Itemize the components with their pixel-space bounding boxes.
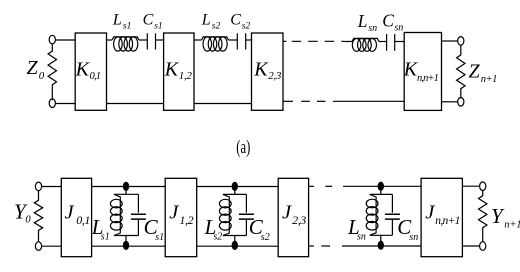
svg-text:Z: Z xyxy=(27,57,39,79)
svg-text:n+1: n+1 xyxy=(504,220,520,231)
svg-text:L: L xyxy=(357,11,368,31)
label Ls2 xyxy=(201,12,221,32)
svg-text:sn: sn xyxy=(357,231,366,242)
port terminal bottom-right (circuit b) xyxy=(480,242,486,251)
svg-text:L: L xyxy=(112,12,122,29)
wire top-left to J0,1 xyxy=(42,186,61,188)
impedance inverter K2,3 xyxy=(252,33,284,110)
node dot bottom (tank 2) xyxy=(232,241,238,250)
wire bottom rail J1,2 to J2,3 xyxy=(197,245,279,247)
wire K0,1 to Ls1 xyxy=(107,39,113,41)
label Ls1 (shunt) xyxy=(91,215,110,243)
svg-text:1,2: 1,2 xyxy=(179,70,193,82)
wire Kn,n+1 to right port top xyxy=(442,40,458,42)
svg-text:Y: Y xyxy=(491,204,505,228)
svg-text:0,1: 0,1 xyxy=(90,71,101,82)
port terminal bottom-right (circuit a) xyxy=(458,98,464,107)
label Cs2 xyxy=(230,11,250,31)
admittance inverter J0,1 xyxy=(61,178,91,256)
impedance inverter K0,1 xyxy=(75,33,107,110)
svg-text:2,3: 2,3 xyxy=(268,70,282,82)
inductor Ls1 xyxy=(112,37,139,51)
wire dashed top (circuit b) xyxy=(309,185,333,187)
wire Jn,n+1 to right port top xyxy=(462,185,479,187)
wire Cs1 to K1,2 xyxy=(156,39,164,41)
label (a) xyxy=(236,138,250,158)
svg-text:s2: s2 xyxy=(242,22,251,32)
port terminal bottom-left (circuit a) xyxy=(49,99,55,108)
label Lsn xyxy=(357,11,377,34)
capacitor Cs2 (shunt) xyxy=(239,194,254,235)
svg-text:L: L xyxy=(201,12,211,29)
svg-text:sn: sn xyxy=(409,232,418,243)
wire top rail to Jn,n+1 xyxy=(343,185,421,187)
svg-text:s2: s2 xyxy=(213,231,222,242)
wire dashed bottom (circuit a) xyxy=(283,100,326,102)
svg-text:J: J xyxy=(425,201,435,223)
admittance inverter Jn,n+1 xyxy=(421,178,462,256)
svg-text:n,n+1: n,n+1 xyxy=(435,215,459,227)
inductor Lsn (shunt) xyxy=(366,194,378,235)
svg-text:s2: s2 xyxy=(212,22,221,32)
node dot bottom (tank n) xyxy=(378,241,384,250)
wire bottom-left to J0,1 xyxy=(42,245,61,247)
label Csn xyxy=(382,10,403,33)
label Yn+1 xyxy=(491,204,520,231)
svg-text:s1: s1 xyxy=(101,231,110,242)
node dot top (tank n) xyxy=(378,182,384,191)
shunt tank 2 frame xyxy=(223,187,247,247)
svg-text:0: 0 xyxy=(39,70,45,82)
label Csn (shunt) xyxy=(397,215,418,243)
inductor Ls1 (shunt) xyxy=(110,194,122,235)
svg-text:s1: s1 xyxy=(123,22,131,32)
capacitor Cs1 (shunt) xyxy=(131,194,146,235)
wire Csn to Kn,n+1 xyxy=(395,41,405,43)
svg-text:2,3: 2,3 xyxy=(292,213,306,227)
port terminal top-right (circuit b) xyxy=(480,182,486,191)
svg-text:sn: sn xyxy=(368,23,377,34)
label Y0 xyxy=(14,199,31,225)
wire top rail J0,1 to J1,2 xyxy=(92,186,166,188)
svg-text:n,n+1: n,n+1 xyxy=(417,73,439,84)
svg-text:K: K xyxy=(75,58,91,80)
svg-text:0: 0 xyxy=(25,214,31,225)
resistor Zn+1 xyxy=(457,45,465,98)
wire bottom solid to Kn,n+1 xyxy=(333,100,404,102)
wire Lsn to Csn xyxy=(379,41,387,43)
wire Kn,n+1 to right port bottom xyxy=(442,101,458,103)
wire top rail J1,2 to J2,3 xyxy=(197,186,279,188)
svg-text:1,2: 1,2 xyxy=(179,213,193,227)
capacitor Csn (shunt) xyxy=(385,194,400,235)
svg-text:Z: Z xyxy=(469,61,481,83)
wire dashed top (circuit a) xyxy=(283,40,345,42)
capacitor Csn xyxy=(387,34,395,51)
wire bottom rail to Jn,n+1 xyxy=(342,245,421,247)
node dot bottom (tank 1) xyxy=(123,241,129,250)
wire bottom-left to K0,1 xyxy=(56,103,75,105)
wire dashed bottom (circuit b) xyxy=(309,245,330,247)
svg-text:C: C xyxy=(143,11,154,28)
resistor Yn+1 xyxy=(479,191,487,242)
svg-text:J: J xyxy=(282,201,292,223)
inductor Ls2 (shunt) xyxy=(219,194,231,235)
port terminal top-left (circuit a) xyxy=(49,35,55,44)
svg-text:sn: sn xyxy=(394,22,403,33)
label Ls2 (shunt) xyxy=(204,215,223,243)
svg-text:J: J xyxy=(65,201,75,223)
admittance inverter J2,3 xyxy=(278,178,308,256)
impedance inverter Kn,n+1 xyxy=(403,33,442,111)
node dot top (tank 2) xyxy=(232,182,238,191)
svg-text:C: C xyxy=(230,11,241,28)
wire Ls1 to Cs1 xyxy=(139,39,147,41)
inductor Lsn xyxy=(352,38,379,51)
wire Jn,n+1 to right port bottom xyxy=(462,245,479,247)
svg-text:s2: s2 xyxy=(261,232,270,243)
svg-text:C: C xyxy=(382,10,394,30)
inductor Ls2 xyxy=(202,37,229,51)
shunt tank n frame xyxy=(370,186,393,246)
port terminal top-left (circuit b) xyxy=(35,182,41,191)
svg-text:s1: s1 xyxy=(154,22,162,32)
capacitor Cs1 xyxy=(147,33,155,49)
impedance inverter K1,2 xyxy=(164,33,194,110)
resistor Y0 xyxy=(34,191,42,242)
wire bottom K1,2 to K2,3 xyxy=(194,103,252,105)
wire Cs2 to K2,3 xyxy=(246,39,252,41)
svg-text:J: J xyxy=(169,201,179,223)
label Z0 xyxy=(27,57,45,82)
capacitor Cs2 xyxy=(237,33,245,49)
label Lsn (shunt) xyxy=(347,215,366,243)
label Cs1 (shunt) xyxy=(144,215,165,243)
svg-text:(a): (a) xyxy=(236,138,250,158)
label Cs2 (shunt) xyxy=(249,215,270,243)
svg-text:0,1: 0,1 xyxy=(76,213,90,227)
port terminal top-right (circuit a) xyxy=(458,37,464,46)
svg-text:K: K xyxy=(164,58,180,80)
node dot top (tank 1) xyxy=(123,182,129,191)
svg-text:s1: s1 xyxy=(155,232,164,243)
resistor Z0 xyxy=(48,44,56,100)
svg-text:K: K xyxy=(253,58,269,80)
label Cs1 xyxy=(143,11,163,31)
svg-text:n+1: n+1 xyxy=(481,74,497,85)
admittance inverter J1,2 xyxy=(165,178,197,256)
shunt tank 1 frame xyxy=(114,187,138,247)
port terminal bottom-left (circuit b) xyxy=(35,242,41,251)
wire K1,2 to Ls2 xyxy=(194,39,202,41)
wire bottom K0,1 to K1,2 xyxy=(107,103,164,105)
label Ls1 xyxy=(112,12,131,32)
wire bottom rail J0,1 to J1,2 xyxy=(92,245,166,247)
wire top-left to K0,1 xyxy=(56,39,75,41)
wire to Lsn xyxy=(345,41,352,43)
label Zn+1 xyxy=(469,61,498,86)
wire Ls2 to Cs2 xyxy=(229,39,238,41)
